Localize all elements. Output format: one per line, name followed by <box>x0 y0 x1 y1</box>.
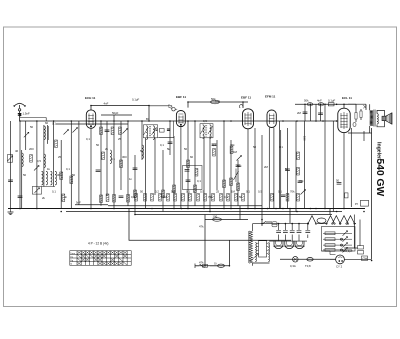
svg-text:4x0,1µF: 4x0,1µF <box>343 249 353 253</box>
svg-text:Si: Si <box>214 262 217 266</box>
svg-text:Ingelen: Ingelen <box>375 142 381 160</box>
svg-text:25: 25 <box>118 137 122 141</box>
svg-text:0,1µF: 0,1µF <box>132 98 139 102</box>
svg-text:0,1: 0,1 <box>52 190 56 194</box>
svg-text:200: 200 <box>29 147 34 151</box>
svg-text:0,5: 0,5 <box>258 190 262 194</box>
svg-text:0,1: 0,1 <box>52 122 56 126</box>
svg-text:ECH 11: ECH 11 <box>85 96 96 100</box>
svg-text:150: 150 <box>303 136 307 141</box>
svg-text:1M: 1M <box>163 195 168 199</box>
svg-text:2M: 2M <box>264 165 269 169</box>
svg-text:1nF: 1nF <box>215 100 220 104</box>
svg-text:0,5: 0,5 <box>203 119 207 123</box>
svg-text:100: 100 <box>213 215 218 219</box>
svg-text:4 P - 12 B (4x): 4 P - 12 B (4x) <box>88 242 109 246</box>
svg-text:60: 60 <box>190 155 194 159</box>
svg-text:46: 46 <box>15 149 19 153</box>
svg-text:0,1: 0,1 <box>279 145 283 149</box>
svg-text:0,1: 0,1 <box>278 190 282 194</box>
svg-text:Pf: Pf <box>355 202 358 206</box>
svg-text:Type: Type <box>70 253 76 255</box>
svg-text:300: 300 <box>57 173 62 177</box>
svg-text:50: 50 <box>23 173 27 177</box>
svg-text:0,1: 0,1 <box>186 190 190 194</box>
svg-text:50pF: 50pF <box>112 111 119 115</box>
svg-text:4nF: 4nF <box>104 102 109 106</box>
svg-text:0,1: 0,1 <box>160 143 164 147</box>
svg-text:0,1: 0,1 <box>197 179 201 183</box>
svg-text:0,1: 0,1 <box>246 190 250 194</box>
svg-text:1,5nF: 1,5nF <box>23 112 30 116</box>
svg-text:25: 25 <box>216 190 220 194</box>
svg-text:25: 25 <box>58 155 62 159</box>
svg-text:50: 50 <box>140 190 144 194</box>
svg-text:0,1µF: 0,1µF <box>328 99 335 103</box>
svg-text:0,1: 0,1 <box>86 137 90 141</box>
svg-text:4nF: 4nF <box>317 99 322 103</box>
svg-text:ECL 11: ECL 11 <box>342 96 352 100</box>
svg-text:300: 300 <box>122 155 127 159</box>
svg-text:50: 50 <box>72 173 76 177</box>
svg-text:EFM 11: EFM 11 <box>265 95 276 99</box>
svg-text:GW: GW <box>363 257 368 261</box>
svg-text:EBF 11: EBF 11 <box>176 95 186 99</box>
svg-text:70k: 70k <box>230 143 235 147</box>
svg-text:0,1: 0,1 <box>66 167 70 171</box>
svg-text:2M: 2M <box>297 111 302 115</box>
svg-text:T0,8: T0,8 <box>305 264 311 268</box>
svg-text:50: 50 <box>253 145 257 149</box>
svg-text:50k: 50k <box>304 99 309 103</box>
svg-text:4n: 4n <box>64 195 68 199</box>
svg-text:5nF: 5nF <box>76 201 81 205</box>
svg-text:50k: 50k <box>171 190 176 194</box>
svg-text:50: 50 <box>96 143 100 147</box>
svg-text:50: 50 <box>239 195 243 199</box>
svg-text:0,5: 0,5 <box>37 159 41 163</box>
svg-text:1n: 1n <box>129 177 133 181</box>
svg-text:0,1: 0,1 <box>131 195 135 199</box>
svg-text:B1: B1 <box>146 117 150 121</box>
svg-text:47k: 47k <box>199 225 204 229</box>
svg-text:50k: 50k <box>237 164 242 168</box>
svg-text:1M: 1M <box>233 150 238 154</box>
svg-text:0,2: 0,2 <box>155 190 159 194</box>
svg-text:EBF 11: EBF 11 <box>241 96 251 100</box>
svg-text:50: 50 <box>184 147 188 151</box>
svg-text:1M: 1M <box>231 190 236 194</box>
svg-text:47k: 47k <box>199 261 204 265</box>
svg-text:70k: 70k <box>290 190 295 194</box>
svg-text:CY 2: CY 2 <box>336 265 343 269</box>
svg-text:0,1: 0,1 <box>224 195 228 199</box>
svg-text:70k: 70k <box>299 179 304 183</box>
svg-text:70k: 70k <box>208 195 213 199</box>
svg-text:0,1: 0,1 <box>111 157 115 161</box>
svg-text:0,1: 0,1 <box>212 143 216 147</box>
svg-text:50: 50 <box>30 125 34 129</box>
svg-text:5n: 5n <box>285 167 289 171</box>
svg-text:60: 60 <box>45 121 49 125</box>
svg-text:0,3A: 0,3A <box>290 264 296 268</box>
svg-text:50: 50 <box>336 179 340 183</box>
svg-text:540 GW: 540 GW <box>374 159 385 197</box>
svg-text:0,5: 0,5 <box>200 190 204 194</box>
